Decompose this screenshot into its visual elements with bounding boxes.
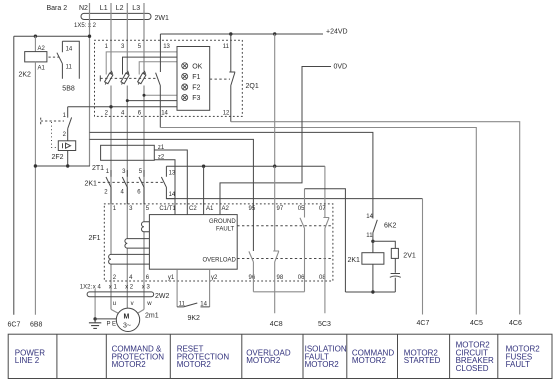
wire monitor tap L1 top — [106, 52, 177, 75]
contact 2K1 aux 13-14 — [161, 166, 175, 198]
wire PE from 1X2 — [94, 289, 96, 319]
svg-text:98: 98 — [277, 275, 284, 281]
fuse-switch 2Q1 L2 — [121, 72, 129, 85]
wire u slant — [111, 309, 120, 314]
svg-text:14: 14 — [169, 192, 176, 198]
contact 2K1 main L2 — [122, 170, 127, 204]
svg-text:x 1: x 1 — [109, 284, 118, 290]
node junction dot A1 — [202, 165, 205, 168]
wire 6B8 vertical lower — [34, 62, 36, 315]
svg-text:v: v — [131, 301, 134, 307]
svg-text:u: u — [113, 301, 116, 307]
wire w12 to 4C6 — [231, 122, 520, 315]
svg-text:MOTOR2: MOTOR2 — [305, 360, 340, 369]
node junction dot return 2F2 — [66, 164, 69, 167]
node junction dot +24V branch — [273, 32, 276, 35]
heater 2F1 L2 — [125, 239, 149, 249]
svg-text:FAULT: FAULT — [506, 360, 530, 369]
svg-text:FAULT: FAULT — [216, 227, 235, 233]
wire N2 rail to 6C7/2K2 — [14, 35, 90, 37]
svg-text:w: w — [146, 301, 152, 307]
indicator F3 — [182, 95, 188, 101]
svg-text:14: 14 — [366, 214, 373, 220]
wire L2 vertical — [126, 3, 128, 308]
svg-text:6B8: 6B8 — [30, 321, 43, 328]
coil 2K1 — [372, 241, 374, 252]
wire N2 vertical — [89, 3, 91, 166]
svg-text:2K2: 2K2 — [19, 72, 32, 79]
wire wB N2 tap to contact 95 — [90, 139, 254, 251]
svg-text:A1: A1 — [206, 206, 214, 212]
svg-text:2T1: 2T1 — [92, 165, 104, 172]
capacitor 2V1 branch — [390, 258, 401, 292]
wire L3 vertical — [143, 3, 145, 309]
wire w14 to 4C5 — [160, 128, 476, 315]
wire wA N2 tap to 6K2 — [90, 132, 373, 214]
wire mechanical link overload — [237, 258, 333, 260]
svg-text:9K2: 9K2 — [188, 315, 201, 322]
svg-text:OK: OK — [192, 63, 202, 70]
svg-text:x 3: x 3 — [142, 284, 151, 290]
svg-text:13: 13 — [163, 44, 170, 50]
wire mechanical link ground fault — [237, 225, 333, 227]
wire z2 to C1/T1 — [154, 160, 175, 215]
node junction dot 2Q1-11 — [229, 32, 232, 35]
wire y2 — [209, 269, 211, 307]
wire mechanical link 2K2 to 5B8 — [49, 56, 61, 58]
wire PE to motor — [95, 318, 116, 320]
svg-text:z2: z2 — [158, 154, 165, 160]
varistor 2V1 — [391, 248, 398, 258]
svg-text:5C3: 5C3 — [318, 321, 331, 328]
svg-text:4C5: 4C5 — [470, 320, 483, 327]
node PE junction — [93, 317, 96, 320]
svg-text:96: 96 — [249, 275, 256, 281]
svg-text:2W2: 2W2 — [155, 293, 170, 300]
wire mechanical link monitor to 11-12 — [210, 78, 230, 80]
wire rail +24VD — [160, 33, 323, 35]
node junction dot 6K2 out — [371, 240, 374, 243]
svg-text:C1/T1: C1/T1 — [159, 206, 176, 212]
svg-text:A1: A1 — [38, 66, 46, 72]
svg-text:2K1: 2K1 — [348, 257, 361, 264]
fuse-switch 2Q1 L1 — [105, 72, 113, 85]
svg-text:MOTOR2: MOTOR2 — [246, 356, 281, 365]
svg-text:Bara 2: Bara 2 — [47, 5, 68, 12]
svg-text:OVERLOAD: OVERLOAD — [203, 257, 237, 263]
enclosure 2Q1 dotted box — [95, 40, 243, 116]
wire 0VD — [220, 67, 331, 215]
contact 07-08 to 5C3 — [323, 215, 329, 313]
svg-text:LINE 2: LINE 2 — [15, 356, 40, 365]
svg-text:4C8: 4C8 — [270, 321, 283, 328]
node junction dot coil bottom — [371, 290, 374, 293]
transformer 2T1 — [101, 145, 155, 160]
wire coil bottom node — [345, 264, 395, 292]
svg-text:x 4: x 4 — [93, 284, 102, 290]
svg-text:14: 14 — [161, 110, 168, 116]
wire monitor tap L2 bottom — [127, 100, 177, 102]
svg-text:2K1: 2K1 — [85, 180, 98, 187]
contact 2F2 trip 1-2 — [68, 107, 72, 141]
svg-text:F2: F2 — [192, 85, 200, 92]
busbar 2W1 — [81, 13, 151, 19]
svg-text:2V1: 2V1 — [403, 252, 416, 259]
indicator F1 — [182, 73, 188, 79]
wire 2K2/6B8 vertical upper — [34, 36, 36, 51]
legend table — [8, 334, 552, 378]
node junction dot return 2K2 — [34, 164, 37, 167]
relay 2F2 I> — [58, 141, 75, 151]
svg-text:MOTOR2: MOTOR2 — [177, 360, 212, 369]
svg-text:MOTOR2: MOTOR2 — [352, 356, 387, 365]
wire mechanical link 2K1 — [98, 181, 163, 183]
node junction dot N2 rail — [88, 35, 91, 38]
svg-text:L1: L1 — [100, 5, 108, 12]
svg-text:A2: A2 — [222, 206, 230, 212]
wire 6C7 vertical — [13, 36, 15, 315]
svg-text:0VD: 0VD — [334, 64, 348, 71]
contact 2K1 main L3 — [139, 170, 144, 204]
svg-text:x 2: x 2 — [125, 284, 134, 290]
wire wC to 4C7 — [166, 198, 422, 200]
svg-text:11: 11 — [366, 233, 373, 239]
contact 6K2 — [373, 215, 377, 242]
svg-text:2W1: 2W1 — [155, 15, 170, 22]
svg-text:6K2: 6K2 — [384, 222, 397, 229]
svg-text:4C6: 4C6 — [509, 320, 522, 327]
svg-text:95: 95 — [249, 206, 256, 212]
svg-text:F1: F1 — [192, 74, 200, 81]
wire w slant — [136, 309, 144, 314]
wire mechanical link 2F2 — [41, 118, 64, 125]
svg-text:6C7: 6C7 — [8, 321, 21, 328]
svg-text:97: 97 — [277, 206, 284, 212]
node junction dot 2K2 top — [34, 35, 37, 38]
wire z1 to C2 — [154, 150, 187, 215]
svg-text:GROUND: GROUND — [209, 219, 236, 225]
contact 95-96 — [249, 251, 254, 291]
svg-text:z1: z1 — [158, 145, 165, 151]
fuse-switch 2Q1 L3 — [138, 72, 146, 85]
heater 2F1 L1 — [109, 254, 150, 264]
indicator OK — [182, 63, 188, 69]
contact 5B8 bracket — [62, 41, 79, 79]
indicator F2 — [182, 84, 188, 90]
contact 05-06 — [300, 189, 305, 292]
svg-text:y2: y2 — [211, 275, 218, 281]
contact 9K2 reset 11-14 — [177, 303, 210, 307]
svg-text:L3: L3 — [132, 5, 140, 12]
wire control feed from L1 to 2F2 — [68, 106, 177, 108]
wire +24V distribution — [274, 34, 276, 166]
coil 2K2 — [25, 52, 47, 62]
fuse monitor box — [177, 47, 210, 111]
wire A1 — [203, 166, 205, 214]
motor 2m1 — [116, 308, 139, 331]
node junction dot 97 — [273, 165, 276, 168]
wire 2F2 to return rail — [67, 151, 69, 167]
svg-text:2Q1: 2Q1 — [246, 83, 259, 90]
svg-text:3~: 3~ — [123, 322, 131, 329]
svg-text:L2: L2 — [116, 5, 124, 12]
wire mechanical link fuses — [100, 77, 156, 79]
svg-text:STARTED: STARTED — [404, 356, 441, 365]
svg-text:1X5: x 2: 1X5: x 2 — [74, 23, 97, 29]
svg-text:2F2: 2F2 — [52, 154, 64, 161]
contact 2Q1 aux 11-12 — [229, 34, 235, 122]
wire 05 feed — [305, 189, 346, 292]
svg-text:5B8: 5B8 — [62, 86, 75, 93]
contact 5B8 — [57, 41, 63, 79]
svg-text:CLOSED: CLOSED — [456, 364, 489, 373]
svg-text:P E: P E — [107, 322, 117, 328]
svg-text:13: 13 — [169, 170, 176, 176]
contact 2Q1 aux 13-14 — [156, 34, 161, 128]
wire 96-06 tie — [253, 291, 304, 293]
wire monitor tap L2 top — [123, 57, 178, 74]
svg-text:N2: N2 — [79, 5, 88, 12]
svg-text:11: 11 — [223, 44, 230, 50]
relay 9K2 body — [149, 215, 237, 270]
svg-text:y1: y1 — [168, 275, 175, 281]
svg-text:2m1: 2m1 — [145, 313, 159, 320]
svg-text:1X2:: 1X2: — [80, 284, 93, 290]
svg-text:14: 14 — [200, 301, 207, 307]
busbar cable 2W2 — [87, 292, 154, 297]
svg-text:07: 07 — [319, 206, 326, 212]
svg-text:A2: A2 — [38, 46, 46, 52]
enclosure 2F1/9K2 dotted box — [104, 204, 333, 281]
svg-text:14: 14 — [66, 47, 73, 53]
contact 2K1 main L1 — [106, 170, 111, 204]
wire L1 vertical — [110, 3, 112, 309]
svg-text:12: 12 — [223, 110, 230, 116]
wire monitor tap L3 bottom — [144, 94, 177, 96]
svg-text:2F1: 2F1 — [89, 235, 101, 242]
wire to 2V1 — [373, 241, 395, 248]
wire y1 — [176, 269, 178, 307]
svg-text:MOTOR2: MOTOR2 — [112, 360, 147, 369]
wire coil return rail — [35, 165, 89, 168]
svg-text:+24VD: +24VD — [326, 29, 348, 36]
wire monitor tap L3 top — [139, 62, 177, 75]
ground — [89, 319, 101, 329]
svg-text:M: M — [124, 314, 130, 321]
contact 97-98 to 4C8 — [273, 166, 279, 313]
svg-text:11: 11 — [179, 301, 186, 307]
heater 2F1 L3 — [141, 222, 149, 232]
svg-text:F3: F3 — [192, 95, 200, 102]
svg-text:C2: C2 — [189, 206, 197, 212]
svg-text:11: 11 — [66, 64, 73, 70]
node junction dot L1 control tap — [109, 105, 112, 108]
svg-text:4C7: 4C7 — [417, 320, 430, 327]
